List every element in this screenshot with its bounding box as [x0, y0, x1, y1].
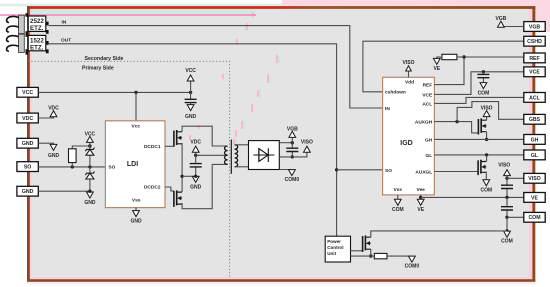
wire M1 drain to transformer top rail [182, 126, 228, 146]
wire PCU bottom lead [351, 255, 371, 257]
svg-text:VGB: VGB [495, 16, 506, 22]
svg-text:VISO: VISO [301, 139, 313, 145]
svg-text:ACL: ACL [529, 95, 540, 101]
rectifier diode box [249, 141, 280, 170]
junction M3 source node [369, 254, 372, 257]
wire M1 source / M2 drain vertical [181, 143, 183, 192]
wire VDC cap stems [195, 155, 197, 176]
wire IGD Vee stem [420, 195, 422, 200]
wire LDI Vcc drop [135, 92, 137, 120]
wire GND lower pin line [38, 190, 90, 192]
junction VDC cap/midpoint [194, 175, 197, 178]
terminal GND arrow SO [84, 192, 96, 206]
svg-text:COM: COM [478, 90, 490, 96]
svg-text:GND: GND [48, 153, 60, 159]
svg-text:VISO: VISO [528, 176, 540, 182]
terminal VISO arrow secondary [301, 139, 313, 152]
terminal GND arrow upper [48, 144, 60, 159]
svg-text:AUXGH: AUXGH [415, 120, 433, 126]
terminal VGB arrow [287, 127, 298, 138]
transistor M2 push-pull lower [174, 190, 182, 207]
wire COM node down [506, 217, 508, 231]
wire IGD Vss stem [397, 195, 399, 200]
svg-text:COM: COM [392, 207, 404, 213]
wire ACL to pin [434, 97, 523, 103]
wire VISO arrow stem to node [506, 175, 508, 179]
junction GND2/zener [88, 190, 91, 193]
capacitor VISO-VE [501, 185, 513, 188]
svg-text:REF: REF [423, 82, 433, 88]
terminal COM0 arrow PCU [405, 256, 420, 269]
wire VGB arrow to pin [501, 26, 524, 28]
fiber optic transmitter 1522ETZ module body [19, 34, 25, 52]
transistor M3 power control [363, 235, 371, 252]
svg-text:OUT: OUT [61, 38, 71, 44]
svg-text:VISO: VISO [481, 105, 493, 111]
wire M3 source to node [370, 249, 372, 256]
svg-text:Power: Power [327, 239, 341, 244]
wire GL line [434, 154, 523, 156]
wire midpoint to cap bottom [182, 175, 196, 177]
pin GND upper [17, 138, 38, 148]
svg-text:DCDC2: DCDC2 [144, 184, 161, 190]
svg-text:SO: SO [108, 165, 115, 171]
terminal VDC arrow [190, 139, 201, 152]
svg-text:REF: REF [529, 56, 539, 62]
svg-text:COM: COM [480, 188, 492, 194]
mint band inside top border [30, 9, 256, 14]
pin VCC [17, 87, 38, 97]
pastel pink zone top-right outside corner [282, 0, 550, 6]
svg-text:GND: GND [185, 114, 197, 120]
wire cap6 stems [506, 197, 508, 217]
svg-text:Vss: Vss [394, 187, 403, 193]
transistor M1 push-pull upper [174, 130, 182, 147]
pink band inside left border [30, 9, 32, 277]
svg-text:GND: GND [84, 200, 96, 206]
svg-text:GND: GND [130, 219, 142, 225]
wire GBS staircase [457, 102, 524, 122]
junction COM node [505, 216, 508, 219]
svg-text:VCE: VCE [529, 70, 540, 76]
wire VDC pin to arrow [38, 117, 53, 118]
transmitter 1522ETZ label box [28, 35, 46, 51]
capacitor VDC [190, 164, 202, 167]
svg-text:VCC: VCC [185, 68, 196, 74]
wire M2 source to transformer bottom rail [182, 164, 228, 208]
block LDI [105, 121, 165, 208]
svg-text:GH: GH [425, 137, 433, 143]
transformer core [230, 140, 232, 174]
transformer primary winding [225, 146, 228, 164]
terminal GND under VCC cap [185, 105, 197, 120]
svg-text:LDI: LDI [127, 161, 138, 168]
wire cshdown to CSHD pin [363, 41, 524, 92]
svg-text:GL: GL [531, 153, 539, 159]
svg-text:VE: VE [417, 207, 424, 213]
fiber optic receiver 2522ETZ module body [19, 15, 25, 33]
pastel cyan band above top border [0, 4, 440, 7]
junction VCC/LDI [134, 91, 137, 94]
pin CSHD [524, 36, 545, 46]
wire resistor to COM0 arrow [387, 255, 412, 258]
wire resistor bottom stem [71, 163, 73, 167]
junction COM rail node [505, 229, 508, 232]
wire secondary bottom to rectifier [235, 166, 249, 168]
junction VGB node [291, 141, 294, 144]
junction GH node [485, 138, 488, 141]
pin GL [524, 150, 545, 160]
svg-text:GND: GND [22, 189, 34, 195]
svg-text:ETZ.: ETZ. [30, 25, 44, 32]
terminal VE arrow REF [433, 58, 440, 72]
svg-text:Secondary Side: Secondary Side [85, 56, 124, 62]
svg-text:VDC: VDC [22, 116, 33, 122]
terminal COM0 arrow [285, 170, 300, 184]
svg-text:ETZ.: ETZ. [30, 44, 44, 51]
capacitor VE-COM [501, 207, 513, 210]
wire VCC rail [38, 91, 190, 93]
pin REF [524, 53, 545, 63]
diode zener D1 [85, 148, 94, 156]
terminal GND under LDI [130, 211, 142, 225]
isolation divider dotted line [28, 61, 230, 276]
wire VISO node to pin [507, 177, 524, 179]
transistor M4 aux high [478, 118, 486, 134]
pin VGB [524, 22, 545, 32]
svg-text:SO: SO [24, 165, 32, 171]
wire SO line to LDI [38, 166, 105, 168]
wire rectifier VGB lead [279, 142, 292, 144]
wire IGD Vdd stem [408, 71, 410, 78]
svg-text:Vcc: Vcc [132, 124, 141, 130]
fiber cable prong 1 [7, 16, 19, 22]
capacitor VCE [477, 74, 489, 77]
fiber cable prong 2 [7, 26, 19, 32]
terminal VCC arrow SO [85, 132, 96, 143]
pin VCE [524, 67, 545, 77]
wire resistor top to VCC node [72, 146, 90, 149]
pin VE [524, 193, 545, 203]
wire secondary top to rectifier [235, 144, 249, 146]
block Power Control Unit [325, 236, 350, 262]
module pin nubs [46, 22, 49, 54]
wire OUT from transmitter down to SO/PCU rail [49, 44, 337, 236]
resistor REF [442, 54, 457, 59]
svg-text:GND: GND [190, 184, 202, 190]
svg-text:VISO: VISO [403, 60, 415, 66]
terminal COM arrow under VCE cap [478, 83, 490, 97]
wire VCE to pin [434, 72, 523, 95]
terminal VISO arrow right [504, 170, 511, 176]
terminal VDC arrow [48, 106, 59, 117]
wire M4 source to GH line [486, 132, 488, 139]
resistor SO pull-up [69, 149, 77, 163]
wire VCC2 arrow stem [89, 142, 91, 146]
svg-text:VDC: VDC [48, 106, 59, 112]
junction midpoint to GND [180, 175, 183, 178]
svg-text:Control: Control [327, 245, 343, 250]
svg-text:VISO: VISO [498, 163, 510, 169]
junction VCC/cap [189, 91, 192, 94]
junction Vee/VE rail [419, 196, 422, 199]
pin ACL [524, 93, 545, 103]
svg-text:IN: IN [385, 106, 390, 112]
transistor M5 aux low [478, 160, 486, 175]
pin COM [524, 212, 545, 222]
wire GND pin to arrow [38, 143, 53, 145]
faint pink glow below bottom border [27, 282, 535, 285]
pink band inside right border [528, 9, 532, 277]
wire VCE cap stems [482, 72, 484, 84]
junction SO/zener [88, 165, 91, 168]
wire rectifier mid lead / VISO [279, 151, 307, 157]
svg-text:VCC: VCC [22, 90, 33, 96]
terminal COM arrow under M5 [480, 180, 492, 194]
svg-text:Primary Side: Primary Side [82, 66, 114, 72]
wire M4 gate jog [457, 122, 478, 133]
terminal COM arrow bottom right [501, 231, 513, 244]
junction OUT/SO node [335, 168, 338, 171]
svg-text:cshdown: cshdown [385, 90, 406, 96]
svg-text:VE: VE [531, 195, 538, 201]
junction VCC2 node [88, 144, 91, 147]
block IGD [383, 77, 435, 195]
wire cap5 stems [506, 178, 508, 197]
wire LDI Vss to GND [135, 208, 137, 212]
wire VDC arrow stem [195, 151, 197, 155]
wire IN from receiver to IGD [49, 26, 383, 108]
wire VCC cap top stem [190, 92, 192, 99]
terminal VISO arrow M4 [481, 105, 493, 116]
junction VE node [505, 196, 508, 199]
wire DCDC2 gate lead [165, 187, 174, 191]
resistor COM0 [374, 253, 387, 258]
pin GBS [524, 114, 545, 124]
wire rectifier COM0 lead [279, 169, 292, 172]
fiber cable prong 3 [7, 36, 19, 42]
wire AUXGH lead [434, 121, 457, 123]
svg-text:COM0: COM0 [405, 263, 420, 269]
wire VCC arrow stem [190, 80, 192, 92]
svg-text:COM0: COM0 [285, 177, 300, 183]
svg-text:Vss: Vss [132, 198, 141, 204]
terminal COM arrow under Vss [392, 199, 404, 213]
junction GL node [485, 153, 488, 156]
module mounting stubs [25, 13, 28, 54]
frame left border [27, 6, 30, 281]
junction VISO box node [505, 177, 508, 180]
wire DCDC1 gate lead [165, 145, 174, 147]
svg-text:SO: SO [385, 168, 392, 174]
pin SO [17, 162, 38, 172]
svg-text:IN: IN [62, 20, 67, 26]
wire VCC cap to GND [190, 103, 192, 106]
terminal GND under VDC cap [190, 176, 202, 190]
svg-text:Vee: Vee [417, 187, 426, 193]
diode zener D2 [85, 171, 94, 179]
frame right border [532, 6, 535, 281]
receiver 2522ETZ label box [28, 16, 46, 32]
junction VDC node [194, 154, 197, 157]
svg-text:GBS: GBS [529, 117, 541, 123]
pin VISO [524, 173, 545, 183]
svg-text:VE: VE [433, 66, 440, 72]
svg-text:CSHD: CSHD [527, 39, 542, 45]
wire M3 source stem to resistor [371, 255, 375, 257]
pin GH [524, 135, 545, 145]
svg-text:GND: GND [22, 141, 34, 147]
terminal VE arrow under Vee [417, 199, 424, 213]
junction REF/resistor [462, 55, 465, 58]
wire M5 drain stem [486, 155, 488, 162]
svg-text:GH: GH [531, 137, 539, 143]
wire M5 source to COM [485, 172, 487, 181]
wire VE rail to VE pin [421, 196, 524, 198]
wire M4 drain to VISO arrow [486, 116, 488, 120]
pastel artifact dashes (scan remnants) [276, 55, 278, 63]
svg-text:COM: COM [528, 215, 540, 221]
wire VGB arrow stem [291, 137, 293, 143]
svg-text:DCDC1: DCDC1 [144, 144, 161, 150]
wire REF resistor to junction [457, 56, 464, 58]
terminal VCC arrow [185, 68, 196, 81]
svg-text:VCC: VCC [85, 132, 96, 138]
wire PCU gate lead [351, 250, 363, 252]
svg-text:AUXGL: AUXGL [415, 170, 432, 176]
wire GH line [434, 138, 523, 140]
wire M3 drain to COM rail [371, 231, 507, 237]
terminal VISO arrow IGD [403, 60, 415, 71]
capacitor VCC blocking [185, 99, 197, 102]
svg-text:ACL: ACL [422, 101, 432, 107]
fiber cable prong 4 [7, 45, 19, 51]
svg-text:VGB: VGB [287, 127, 298, 133]
svg-text:VDC: VDC [190, 139, 201, 145]
pink band inside bottom border [30, 277, 533, 279]
wire zener1 stems [89, 146, 91, 167]
svg-text:Vdd: Vdd [405, 79, 414, 85]
wire SO branch to IGD [337, 169, 383, 171]
wire REF to pin [434, 57, 523, 85]
capacitor VGB [286, 148, 298, 151]
magenta artifact line across top [0, 14, 256, 16]
svg-text:IGD: IGD [400, 140, 412, 147]
wire COM node to pin [507, 216, 524, 218]
wire zener2 stems [89, 167, 91, 191]
wire VDC center tap [196, 154, 228, 156]
junction VCE/cap [482, 70, 485, 73]
terminal VGB arrow right [495, 16, 506, 27]
wire AUXGL gate lead [434, 171, 478, 173]
transformer secondary winding [235, 145, 238, 167]
wire VGB cap stems [291, 143, 293, 157]
pin VDC [17, 113, 38, 123]
junction VISO rail node [291, 155, 294, 158]
junction AUXGH node [455, 120, 458, 123]
wire resistor to VE arrow [437, 57, 442, 59]
junction SO/resistor [71, 165, 74, 168]
svg-text:VCE: VCE [422, 92, 433, 98]
frame bottom border [27, 279, 535, 282]
svg-text:Unit: Unit [327, 251, 336, 256]
svg-text:GL: GL [426, 153, 433, 159]
svg-text:VGB: VGB [529, 24, 540, 30]
svg-text:COM: COM [501, 238, 513, 244]
pin GND lower [17, 186, 38, 196]
